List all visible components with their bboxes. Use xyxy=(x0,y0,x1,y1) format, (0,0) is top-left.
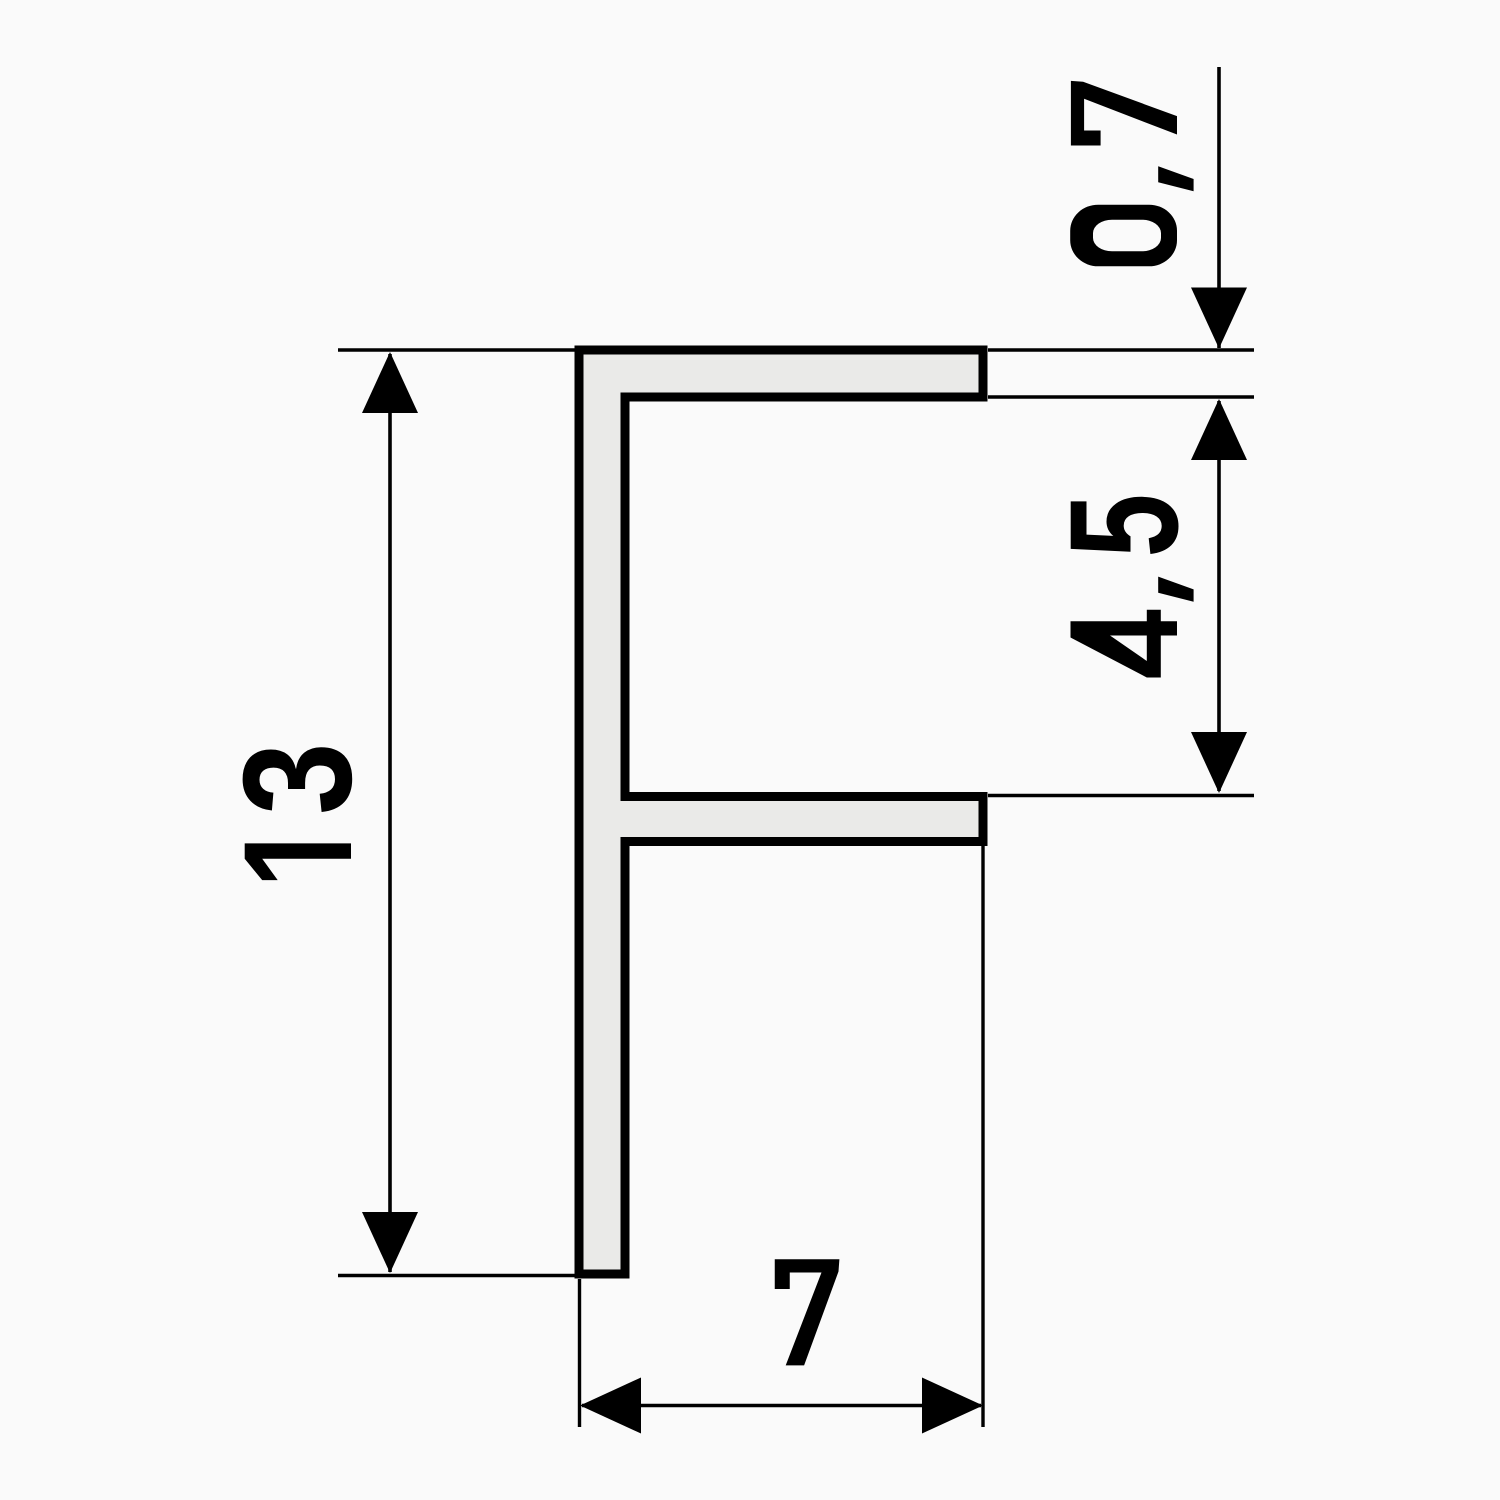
dimension 4,5 arrow up xyxy=(1191,399,1247,460)
dimension 0,7 arrow down xyxy=(1191,288,1247,349)
extension line right (4,5 bottom) xyxy=(988,794,1254,797)
dimension 4,5 line xyxy=(1217,401,1221,791)
dimension 4,5 arrow down xyxy=(1191,732,1247,793)
extension line bottom-right vertical (7 right) xyxy=(981,846,984,1427)
dimension 13 label: digit 3 xyxy=(243,747,353,812)
dimension 0,7 label: digit 0 xyxy=(1070,205,1177,267)
dimension 13 arrow down xyxy=(362,1212,418,1273)
dimension 7 arrow right xyxy=(922,1378,983,1434)
extension line bottom-left (13 bottom) xyxy=(338,1274,575,1277)
dimension 4,5 label: digit 5 xyxy=(1071,497,1179,554)
dimension 13 arrow up xyxy=(362,352,418,413)
extension line right (0,7 bottom / 4,5 top) xyxy=(988,395,1254,398)
dimension 13 line xyxy=(388,354,392,1272)
extension line top-right (0,7 top) xyxy=(988,348,1254,351)
dimension 0,7 label: comma xyxy=(1158,166,1193,191)
dimension 7 label: digit 7 xyxy=(775,1259,840,1365)
dimension 4,5 label: comma xyxy=(1158,577,1193,602)
dimension 13 label: digit 1 xyxy=(245,843,351,880)
extension line top-left (13 top) xyxy=(338,348,575,351)
dimension 7 arrow left xyxy=(580,1378,641,1434)
profile F cross-section xyxy=(579,350,983,1274)
dimension 7 line xyxy=(582,1404,981,1408)
extension line bottom-left vertical (7 left) xyxy=(578,1279,581,1427)
dimension 0,7 line xyxy=(1217,67,1221,348)
dimension 0,7 label: digit 7 xyxy=(1071,81,1177,146)
dimension 4,5 label: digit 4 xyxy=(1071,610,1178,678)
